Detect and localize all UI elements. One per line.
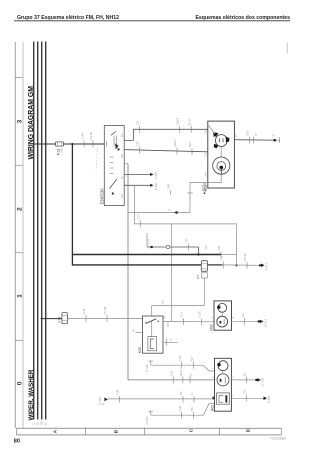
row tick 2 xyxy=(15,164,23,166)
tick on top wire xyxy=(178,126,180,133)
tick on row2 wire xyxy=(182,377,184,384)
tick on M03 out wire xyxy=(244,318,246,325)
tick on row2 wire xyxy=(189,377,191,384)
tick on F74 wire xyxy=(106,315,108,322)
interval wire drop to rail 1 xyxy=(198,247,200,255)
park switch cam dot xyxy=(220,166,224,170)
wire row4 to motor M02 xyxy=(151,403,215,415)
header rule xyxy=(14,20,290,22)
row1 hook tick xyxy=(148,360,153,362)
relay K35 box xyxy=(143,316,164,353)
switch S36 lower wedge xyxy=(118,147,121,151)
stub S36 to riser C xyxy=(124,163,128,165)
floating tick label pair xyxy=(170,191,172,196)
connector tick on F13 wire xyxy=(92,140,94,147)
switch S36 contact studs xyxy=(110,156,114,158)
motor brush marks xyxy=(219,138,221,142)
tick on row1 wire xyxy=(181,362,183,369)
branch 53e riser xyxy=(134,185,236,265)
off-page arrow F7 out xyxy=(261,264,265,268)
park switch stem xyxy=(220,169,222,174)
wire M02 row2 to off-page xyxy=(231,379,254,381)
fuse F13 xyxy=(56,142,64,146)
junction dot F74 feed xyxy=(41,318,43,320)
svg-text:512 R: 512 R xyxy=(200,311,202,317)
wiper motor M6/23 box xyxy=(208,121,235,188)
wire riser C to motor M02 (row2) xyxy=(128,379,215,381)
svg-text:521 R: 521 R xyxy=(189,119,191,125)
svg-text:516 SB: 516 SB xyxy=(91,132,93,140)
M03 motor circle xyxy=(217,316,228,327)
svg-text:C136 6: C136 6 xyxy=(82,131,84,139)
switch S36 droppers xyxy=(113,136,115,147)
svg-text:F74: F74 xyxy=(57,317,61,323)
tick on F74 wire xyxy=(85,315,87,322)
wire S36 53e to off-page node xyxy=(124,184,150,186)
wire M6/23 to node 31 junction xyxy=(234,139,274,142)
M03 motor brush line xyxy=(223,319,225,325)
svg-text:C243 4: C243 4 xyxy=(178,117,180,125)
svg-text:15E: 15E xyxy=(42,421,44,426)
svg-text:C35: C35 xyxy=(138,141,140,146)
wire bus to fuse F74 xyxy=(42,318,62,320)
switch S30 contact dot xyxy=(112,192,114,194)
off-page node 53e xyxy=(150,184,153,187)
svg-text:C140: C140 xyxy=(180,405,182,411)
svg-text:1: 1 xyxy=(17,294,24,298)
svg-text:T3013883: T3013883 xyxy=(270,437,286,441)
M02 motor brush bar xyxy=(220,379,222,382)
ground run to riser C xyxy=(128,212,190,214)
bottom band divider A/B xyxy=(84,428,86,435)
svg-text:37.4 D2: 37.4 D2 xyxy=(100,396,102,405)
wire down feed to relay rail xyxy=(71,144,73,255)
bottom band bottom line xyxy=(17,434,282,436)
row3 off-page arrow terminal xyxy=(104,398,108,402)
svg-text:C140: C140 xyxy=(180,355,182,361)
rail 1 continuation to branch riser xyxy=(221,254,237,256)
wire fuse F13 to switch S36 xyxy=(64,143,106,145)
rail 2 vertical joint xyxy=(71,254,73,266)
tick on motor output wire xyxy=(253,137,255,144)
relay top riser xyxy=(151,306,153,317)
tick on M02 out wire xyxy=(245,377,247,384)
bus wire 31 xyxy=(33,42,35,420)
tick on K35-M03 wire xyxy=(201,318,203,325)
park switch inner circle xyxy=(217,162,226,171)
park switch ground run xyxy=(190,174,221,212)
svg-text:522 Y: 522 Y xyxy=(190,141,192,147)
switch S30 lower arm xyxy=(110,179,118,189)
relay K35 switch arm xyxy=(146,319,156,323)
svg-text:10A: 10A xyxy=(60,148,63,153)
motor wedge left-top xyxy=(213,132,218,137)
tick on row2 wire xyxy=(172,377,174,384)
M02 gear box xyxy=(217,393,230,404)
svg-text:37.4 D3: 37.4 D3 xyxy=(147,416,149,425)
bus wire 30 xyxy=(45,42,47,420)
washer motor M03 box xyxy=(214,301,232,330)
junction node F13/down feed xyxy=(71,143,73,145)
junction dot row3 at box xyxy=(212,397,215,400)
bottom band right end xyxy=(280,428,282,435)
M02 pump circle xyxy=(218,361,228,371)
wire relay K35 to motor M03 xyxy=(163,320,214,322)
svg-text:37.4 B3: 37.4 B3 xyxy=(156,171,158,180)
junction dot node 31 xyxy=(274,139,277,142)
svg-text:524 W: 524 W xyxy=(181,369,183,376)
bus wire 15E xyxy=(41,42,43,420)
svg-text:Esquemas elétricos dos compone: Esquemas elétricos dos componentes xyxy=(195,15,290,21)
dashed actuate link xyxy=(96,148,98,170)
relay K35 coil C mark xyxy=(150,339,154,348)
motor M6/23 armature circle xyxy=(215,135,227,147)
svg-text:515 SB: 515 SB xyxy=(245,253,247,261)
row tick 4 xyxy=(15,339,23,341)
wire S36 53 to off-page node xyxy=(124,173,150,175)
row1 hook terminal xyxy=(150,361,152,365)
connector tick on F13 wire xyxy=(83,140,85,147)
wire entry tick inside box xyxy=(106,141,108,147)
off-page arrow M03 xyxy=(260,320,264,324)
svg-text:37.4 D5: 37.4 D5 xyxy=(269,395,271,404)
motor wedge bottom-left xyxy=(214,144,219,149)
relay K35 contact studs xyxy=(145,322,146,323)
M02 out junction dot xyxy=(255,379,257,381)
riser C long vertical to washer row xyxy=(127,164,129,380)
bottom band left end xyxy=(16,428,18,435)
off-page arrow M02 row3 xyxy=(264,397,268,401)
right margin faint line xyxy=(286,43,288,54)
svg-text:2: 2 xyxy=(17,207,24,211)
tick at rail 1 end xyxy=(220,251,222,258)
tick on row4 wire xyxy=(193,412,195,419)
svg-text:C137: C137 xyxy=(138,213,140,219)
M03 motor brush bar xyxy=(219,321,221,324)
cross riser to relay wire xyxy=(171,224,173,322)
park switch outer circle xyxy=(213,157,230,174)
svg-text:C243 5: C243 5 xyxy=(175,139,177,147)
cross run to relay top xyxy=(152,305,205,307)
switch S36 contact arm 1 xyxy=(111,131,116,135)
junction square on interval wire xyxy=(151,246,153,248)
junction dot branch to F7 wire xyxy=(235,264,237,266)
svg-text:C248: C248 xyxy=(169,183,171,189)
row4 hook tick xyxy=(148,410,153,412)
wire row3 to motor M02 xyxy=(108,398,215,400)
row label column left line xyxy=(14,42,16,428)
svg-text:C140: C140 xyxy=(172,370,174,376)
supply rail 1 (thick) xyxy=(72,254,221,256)
svg-text:C36: C36 xyxy=(221,256,223,261)
wiper motor M02 box xyxy=(215,358,232,411)
relay K35 left stub xyxy=(136,332,143,334)
switch S36 wedge mark xyxy=(115,143,118,149)
tick on motor output wire xyxy=(249,137,251,144)
relay K35 coil box xyxy=(148,337,157,351)
wire S36 mid to motor M6/23 xyxy=(124,150,208,152)
svg-text:37.4 C2: 37.4 C2 xyxy=(266,262,268,271)
row tick 3 xyxy=(15,252,23,254)
svg-text:0: 0 xyxy=(17,381,24,385)
svg-text:Grupo 37 Esquema elétrico FM,: Grupo 37 Esquema elétrico FM, FH, NH12 xyxy=(17,15,119,21)
tick on top wire xyxy=(138,126,140,133)
off-page arrow M02 row2 xyxy=(257,378,261,382)
row label column right line xyxy=(22,42,24,428)
svg-text:37.4 B3: 37.4 B3 xyxy=(156,182,158,191)
row4 hook terminal xyxy=(150,411,152,415)
svg-text:C243: C243 xyxy=(248,130,250,136)
wire interval run to relay rail xyxy=(147,246,199,248)
node 15-feed junction dot xyxy=(37,143,39,145)
supply rail 2 (thick) xyxy=(72,264,201,266)
wire M02 row3 to off-page xyxy=(231,397,263,399)
svg-text:3: 3 xyxy=(17,119,24,123)
svg-text:K35: K35 xyxy=(138,347,142,353)
inline connector circle xyxy=(166,245,169,248)
svg-text:C136: C136 xyxy=(84,308,86,314)
end tick node 31 xyxy=(279,137,281,143)
bottom band top line xyxy=(17,427,282,429)
bottom band divider C/D xyxy=(218,428,220,435)
svg-text:C36: C36 xyxy=(219,245,221,250)
M03 pump link xyxy=(221,312,223,316)
tick on F7 out run xyxy=(246,262,248,269)
F7 bottom drop xyxy=(203,278,205,306)
tick on coil out wire xyxy=(166,339,168,346)
tick on K35-M03 wire xyxy=(183,318,185,325)
connector mark below motor box xyxy=(203,185,207,191)
svg-text:C140: C140 xyxy=(118,389,120,395)
tick on branch riser run xyxy=(139,221,141,228)
svg-text:C137: C137 xyxy=(149,238,151,244)
stub from node 31 xyxy=(275,139,280,141)
connector block below F7 xyxy=(202,273,208,278)
M02 motor circle xyxy=(217,374,229,386)
svg-text:M03: M03 xyxy=(209,324,213,330)
svg-text:37.4 C3: 37.4 C3 xyxy=(266,318,268,327)
wire M03 to off-page xyxy=(232,320,258,322)
wire F74 to relay K35 xyxy=(67,318,142,320)
connector dot below motor box xyxy=(204,192,206,194)
bus wire 15 xyxy=(37,42,39,420)
tick on M02 row3 out wire xyxy=(245,394,247,401)
tick on interval wire xyxy=(188,244,190,251)
tick on row4 wire xyxy=(181,412,183,419)
M02 pump link xyxy=(222,371,224,374)
svg-text:37.4 D4: 37.4 D4 xyxy=(263,377,265,386)
wire S36 top to motor M6/23 xyxy=(124,129,208,140)
motor wedge right xyxy=(226,137,230,143)
tick on row3 wire xyxy=(193,396,195,403)
row tick 1 xyxy=(15,77,23,79)
svg-text:511 GR: 511 GR xyxy=(105,306,107,314)
tick on row3 wire xyxy=(182,396,184,403)
svg-text:M02: M02 xyxy=(210,405,214,411)
svg-text:C35: C35 xyxy=(187,238,189,243)
M02 pump dot xyxy=(217,363,220,366)
svg-text:F7: F7 xyxy=(197,275,201,279)
svg-text:C137: C137 xyxy=(182,311,184,317)
M02 gear bar xyxy=(225,395,227,402)
ground run arrowhead xyxy=(174,211,178,214)
relay K35 coil out wire xyxy=(163,341,178,343)
tick on mid wire xyxy=(191,148,193,155)
tick on top wire xyxy=(190,126,192,133)
tick on mid wire xyxy=(176,148,178,155)
M02 motor brush line xyxy=(224,377,226,384)
wire row1 to motor M02 xyxy=(151,365,215,371)
svg-text:C36: C36 xyxy=(138,120,140,125)
relay K35 actuator link xyxy=(151,322,153,337)
M03 pump dot xyxy=(217,306,220,309)
tick on mid wire xyxy=(139,147,141,154)
motor to park-switch link xyxy=(220,146,222,157)
bottom band divider B/C xyxy=(144,428,146,435)
wire F7 output (thick stub) xyxy=(208,264,223,266)
fuse F7 xyxy=(201,261,207,272)
junction dot on rail 1 xyxy=(197,253,199,255)
junction dot F7 out xyxy=(259,264,261,266)
wire bus to fuse F13 xyxy=(34,143,56,145)
off-page node 53 xyxy=(150,173,153,176)
M02 gear C mark xyxy=(219,396,223,403)
tick on row1 wire xyxy=(193,362,195,369)
switch S36/S30 box xyxy=(104,126,124,206)
M03 out junction dot xyxy=(258,320,260,322)
wire F7 out thin run xyxy=(223,264,259,266)
riser D vertical xyxy=(146,233,148,247)
svg-text:37.4 D1: 37.4 D1 xyxy=(147,363,149,372)
tick on row3 wire xyxy=(119,396,121,403)
tick on F7 out wire xyxy=(222,262,224,269)
fuse F74 xyxy=(62,313,68,324)
tick on ground riser xyxy=(187,192,193,194)
svg-text:80: 80 xyxy=(14,438,20,444)
motor entry diagonal xyxy=(208,125,215,134)
svg-text:S36/S30: S36/S30 xyxy=(99,188,104,205)
M03 pump circle xyxy=(218,303,227,312)
